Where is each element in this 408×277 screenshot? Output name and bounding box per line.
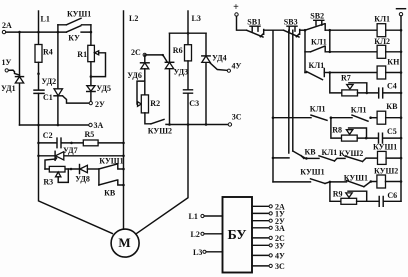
junction dot (55,158) [55,157,58,160]
svg-text:КН: КН [387,58,400,67]
svg-text:С6: С6 [387,191,397,200]
svg-text:УД5: УД5 [96,84,111,93]
junction dot (400.5,181) [400,180,403,183]
svg-text:КВ: КВ [386,102,398,111]
wire C3 down to 3C bus [187,93,189,124]
wire x19 line [19,32,21,125]
contact КЛ1 (rung КВ second) [351,106,368,122]
junction dot (370.3,181) [370,180,373,183]
resistor R7 with wiper [341,74,367,96]
wire УД7 line [39,155,124,157]
junction dot (400.5,51.3) [400,51,403,54]
wire bypass up-join [329,30,331,52]
wire R8 to C5 [357,137,401,139]
node 3U output [252,242,285,251]
svg-text:УД1: УД1 [1,84,16,93]
svg-text:R8: R8 [332,126,342,135]
relay coil КН [377,58,400,79]
node 3A output [252,224,285,233]
svg-text:КУШ1: КУШ1 [300,167,324,176]
junction dot (400.5,137.6) [400,137,403,140]
diode УД8 [75,165,99,184]
wire after КЛ1 contact [335,158,346,161]
svg-text:БУ: БУ [227,228,246,243]
svg-text:3У: 3У [275,242,285,251]
junction dot (305.9,158) [305,157,308,160]
svg-text:КУШ1: КУШ1 [373,143,397,152]
wire КУШ2 coil to bus [386,181,402,183]
pushbutton SB1 [247,17,264,37]
wire R1 down to УД5 [90,32,92,101]
svg-text:2С: 2С [131,48,141,57]
svg-text:L3: L3 [193,248,202,257]
svg-text:КУ: КУ [68,34,80,43]
svg-text:4У: 4У [275,252,285,261]
diode УД7 [55,146,77,161]
svg-text:2А: 2А [2,21,12,30]
svg-text:L1: L1 [189,212,198,221]
resistor R9 with wiper [333,189,367,204]
svg-text:L1: L1 [41,14,50,23]
node 3A terminal [89,121,104,130]
wire R8 branch [331,118,342,138]
wire УД4 gate to 4U [210,63,228,71]
junction dot (71,142.4) [70,142,73,145]
wire L1 phase line top [38,11,40,44]
wire R3 loop from УД7 cathode [45,159,55,169]
junction dot (329,29.7) [329,29,332,32]
node 2U terminal [89,100,105,109]
wire R4 to C1 [38,62,40,90]
diode УД6 [127,55,149,80]
svg-text:КЛ1: КЛ1 [309,61,325,70]
wire 3A bus [20,124,89,126]
junction dot (187.5,32.7) [187,32,190,35]
wire to КН coil [330,72,377,74]
thyristor УД5 [87,84,111,93]
thyristor УД3 [165,62,188,76]
relay coil КУШ1 [373,143,397,165]
svg-text:КЛ1: КЛ1 [310,104,326,113]
wire between contacts [331,117,352,119]
wire into КУШ2 coil [364,182,377,187]
node 2A terminal [2,21,12,34]
svg-text:R6: R6 [173,46,183,55]
resistor R1 with wiper [77,45,105,76]
svg-text:2У: 2У [95,100,105,109]
svg-text:3А: 3А [94,121,104,130]
svg-text:КУШ2: КУШ2 [339,149,363,158]
wire УД4 line [205,33,207,124]
svg-text:КУШ1: КУШ1 [99,157,123,166]
junction dot (90.4,31.6) [90,31,93,34]
junction dot (162.3,54.6) [162,54,164,56]
node 4U terminal [227,62,241,73]
wire rung КУШ1-coil left [273,157,289,159]
wire R9 to C6 [357,200,401,202]
node 4U output [252,252,285,261]
node L2 input [191,230,223,239]
resistor R4 [35,45,53,63]
svg-text:3С: 3С [275,262,285,271]
contact КУШ2 (R2 branch) [148,119,172,135]
wire R6 to C3 [187,61,189,90]
capacitor C3 [184,90,200,108]
junction dot (123,168.5) [122,168,125,171]
block БУ [223,197,253,273]
junction dot (400.5,157.6) [400,157,403,160]
capacitor C4 [379,81,397,98]
svg-text:3А: 3А [275,224,285,233]
junction dot (70.5,168.5) [70,168,73,171]
svg-text:R9: R9 [333,189,343,198]
junction dot (400.5,92.4) [400,92,403,95]
junction dot (329.3,51.3) [329,51,332,54]
svg-text:SB3: SB3 [284,17,298,26]
node 3C output [252,262,285,271]
node 3C terminal [228,113,242,127]
junction dot (329.4,181.4) [329,181,332,184]
wire rung КУШ2-coil left [273,181,311,183]
svg-text:УД2: УД2 [42,77,57,86]
svg-text:R3: R3 [43,178,53,187]
svg-text:КЛ1: КЛ1 [311,38,327,47]
wire R7 branch down [330,73,342,93]
resistor R6 [173,45,192,61]
junction dot (366.3,92.4) [366,92,369,95]
svg-text:УД6: УД6 [127,71,142,80]
junction dot (400.5,29.7) [400,29,403,32]
svg-text:КВ: КВ [104,189,116,198]
wire to КВ coil [371,117,378,119]
junction dot (123,184.5) [122,184,125,187]
junction dot (205.5,124) [205,123,208,126]
wire УД3 line [169,33,171,124]
junction dot (400.5,72) [400,71,403,74]
junction dot (38,73.2) [37,72,40,75]
svg-text:УД3: УД3 [174,68,189,77]
contact KУШ1 (top-left, upper rail) [58,10,91,25]
svg-text:УД7: УД7 [63,146,78,155]
svg-text:L2: L2 [191,230,200,239]
junction dot (365.7,137.6) [365,137,368,140]
wire between КУШ1 contacts [325,182,347,184]
wire to КЛ2 coil [330,51,377,53]
wire top bar y=32.7 [170,32,207,34]
wire КЛ2 to bus [386,51,401,53]
wire x38 line down to motor [39,125,113,234]
wire SB2 to KL1 coil [325,29,377,31]
wire rail SB3-SB2 [300,29,305,31]
junction dot (38,142.4) [37,142,40,145]
svg-text:R2: R2 [150,99,160,108]
svg-text:С3: С3 [189,99,199,108]
svg-text:КУШ1: КУШ1 [67,10,91,19]
junction dot (187.5,124) [187,123,190,126]
wire mid bus pair from rail [289,30,293,153]
wire rung КВ left [273,117,311,119]
pushbutton SB2 [305,12,325,31]
junction dot (38,124.5) [37,124,40,127]
node 2A output [252,203,285,212]
node 1U output [252,210,285,219]
junction dot (400.5,117.2) [400,116,403,119]
wire R2 wiper loop [137,81,145,104]
junction dot (370.1,117.2) [369,116,372,119]
wire 3C bus [166,123,228,125]
node minus terminal [397,9,406,16]
svg-text:1У: 1У [2,58,12,67]
junction dot (169,124) [168,123,171,126]
junction dot (123,142.4) [122,142,125,145]
svg-text:КЛ1: КЛ1 [322,148,338,157]
wire left bus from rail [272,30,274,182]
junction dot (38,31.6) [37,31,40,34]
relay coil КВ [377,102,398,124]
svg-text:4У: 4У [232,62,242,71]
junction dot (272.5,157.4) [272,157,275,160]
junction dot (329.3,72) [329,71,332,74]
svg-text:КЛ1: КЛ1 [374,15,390,24]
contact КВ (rung КУШ1) [293,148,317,159]
pushbutton SB3 [284,17,300,37]
svg-text:3С: 3С [232,113,242,122]
wire x57 line (УД2 branch) [57,32,59,125]
svg-text:С1: С1 [43,93,53,102]
capacitor C6 [379,191,397,206]
junction dot (57.4,31.6) [57,31,60,34]
junction dot (90.4,76.1) [90,75,93,78]
svg-text:R4: R4 [43,48,53,57]
wire + down and top rail [237,16,247,30]
thyristor УД2 [42,77,63,96]
svg-text:УД4: УД4 [212,54,227,63]
wire УД2 gate to 2U [63,96,89,103]
wire 2C to УД3 gate [146,55,167,62]
wire 2A horizontal [6,31,91,33]
junction dot (57.4,124.5) [57,124,60,127]
contact КЛ1 (rung КН) [305,61,330,80]
capacitor C2 [39,131,84,148]
capacitor C5 [379,127,397,143]
node 2C terminal [131,48,146,57]
contact КУШ1 (rung КУШ2 second) [344,174,368,187]
node L3 input [193,248,223,257]
junction dot (19,31.6) [18,31,21,34]
motor M [111,229,139,257]
contact KУ (on 2A wire) [66,26,80,43]
resistor R8 with wiper [332,126,366,141]
svg-text:КЛ1: КЛ1 [351,106,367,115]
svg-text:SB2: SB2 [310,12,324,21]
wire R7 to C4 [358,92,402,94]
contact КЛ1 (rung КУШ1) [319,148,337,161]
relay coil КЛ1 [374,15,390,37]
wire R2 down [145,113,151,124]
svg-text:УД8: УД8 [75,174,90,183]
svg-text:С4: С4 [387,81,397,90]
wire after КВ contact [306,157,319,159]
node 2C output [252,234,285,243]
svg-text:R1: R1 [77,50,87,59]
wire R5 to L2 line [98,142,123,144]
node + supply terminal [233,2,239,16]
svg-text:М: М [118,235,130,250]
relay coil КУШ2 [374,167,398,189]
wire drop to rung KН [304,52,306,73]
resistor R3 with wiper [43,166,79,186]
capacitor C1 [34,90,53,102]
svg-text:КУШ1: КУШ1 [344,174,368,183]
wire КН to bus [386,72,401,74]
wire rail SB1-SB3 [264,29,284,31]
svg-text:КУШ2: КУШ2 [148,126,172,135]
svg-text:R5: R5 [85,130,95,139]
wire into КУШ1 coil [363,158,378,161]
svg-text:С5: С5 [387,127,397,136]
relay coil КЛ2 [374,37,390,58]
contact КЛ1 self-hold (bypass SB2) [305,30,330,52]
wire L3 block down to motor [137,125,189,234]
wire КВ coil to bus [386,117,401,119]
junction dot (38,155.3) [37,155,40,158]
svg-text:+: + [233,2,239,13]
wire C1 down to 3A bus [38,93,40,125]
wire R9 branch [330,182,341,201]
svg-text:SB1: SB1 [247,17,261,26]
svg-text:L2: L2 [129,14,138,23]
resistor R5 [83,130,98,146]
resistor R2 with wiper [138,95,161,113]
contact КЛ1 (rung КВ first) [310,104,327,120]
contact КУШ1 (lower box) [99,157,124,185]
wire minus bus [400,16,402,201]
wire УД6 to R2 [144,69,146,95]
wire L2 phase line [123,11,125,229]
svg-text:КУШ2: КУШ2 [374,167,398,176]
junction dot (330.4,117.2) [330,116,333,119]
node L1 input [189,212,223,221]
contact КУШ1 (rung КУШ2 first) [300,167,325,183]
wire КУШ1 coil to bus [386,157,401,159]
svg-text:КВ: КВ [305,148,317,157]
node 2U output [252,217,285,226]
contact КУШ2 (rung КУШ1) [339,149,363,162]
svg-text:L3: L3 [192,14,201,23]
junction dot (272.5,117.2) [272,116,275,119]
thyristor УД4 [202,54,227,63]
wire L3 phase line [187,11,189,45]
junction dot (123,155.3) [122,155,125,158]
wire 1U gate [8,70,19,75]
thyristor УД1 [1,77,24,93]
svg-text:С2: С2 [43,131,53,140]
svg-text:R7: R7 [341,74,351,83]
svg-text:КЛ2: КЛ2 [374,37,390,46]
wire KL1 coil to minus bus [386,29,401,31]
contact КВ (lower box) [99,180,124,198]
wire switch-box sides [58,25,91,32]
node 1U terminal [2,58,12,72]
junction dot (303,29.7) [304,29,307,32]
